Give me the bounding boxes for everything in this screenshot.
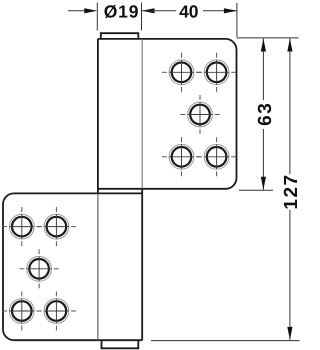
barrel bottom pin cap <box>102 340 139 348</box>
dimension 63: line upper part <box>262 39 264 101</box>
screw hole H9 circles and cross <box>9 299 34 324</box>
screw hole H3 circles and cross <box>188 102 213 127</box>
screw hole H1 centerline dashes <box>162 53 201 92</box>
dimension 63: up arrow <box>261 39 266 52</box>
screw hole H6 circles and cross <box>9 214 34 239</box>
screw hole H10 centerline dashes <box>37 292 76 331</box>
screw hole H2 centerline dashes <box>197 53 236 92</box>
barrel right edge upper (inner, thin) <box>141 39 143 189</box>
dimension 127: line lower part <box>289 210 291 340</box>
screw hole H8 centerline dashes <box>20 249 59 288</box>
dimension 127: line upper part <box>289 39 291 175</box>
barrel left edge upper (outer, thick) <box>97 39 99 194</box>
screw hole H3 centerline dashes <box>181 95 220 134</box>
dimension 127: up arrow <box>287 39 292 52</box>
screw hole H10 circles and cross <box>44 299 69 324</box>
dimension 63: down arrow <box>261 177 266 190</box>
top-right horizontal extension line <box>237 37 299 39</box>
screw hole H8 circles and cross <box>27 256 52 281</box>
screw hole H6 centerline dashes <box>2 207 41 246</box>
top leaf plate outline <box>98 39 237 189</box>
svg-text:40: 40 <box>179 2 199 22</box>
dimension Ø19: left leader line <box>68 10 85 12</box>
dimension 40: line right of text <box>203 10 237 12</box>
screw hole H1 circles and cross <box>169 60 194 85</box>
dimension Ø19: left arrow pointing right <box>84 8 97 13</box>
dimension 63: line lower part <box>262 129 264 190</box>
bottom leaf plate outline <box>3 193 142 340</box>
barrel top pin cap <box>101 33 139 39</box>
dimension Ø19: right extension line <box>141 3 143 31</box>
dimension 127: down arrow <box>287 327 292 340</box>
dimension 40: left arrow pointing left <box>142 8 155 13</box>
barrel left edge lower (inner, thin) <box>97 193 99 340</box>
screw hole H9 centerline dashes <box>2 292 41 331</box>
dimension Ø19: left extension line <box>96 3 98 31</box>
svg-text:Ø19: Ø19 <box>104 2 139 22</box>
screw hole H4 circles and cross <box>169 144 194 169</box>
svg-text:127: 127 <box>281 173 302 209</box>
screw hole H4 centerline dashes <box>162 137 201 176</box>
screw hole H5 circles and cross <box>204 144 229 169</box>
dimension 40: right arrow pointing right <box>224 8 237 13</box>
dimension 40: line left of text <box>142 10 177 12</box>
screw hole H7 centerline dashes <box>37 207 76 246</box>
screw hole H7 circles and cross <box>44 214 69 239</box>
barrel right edge lower (outer, thick) <box>141 189 143 340</box>
bottom horizontal extension line <box>151 340 300 342</box>
screw hole H5 centerline dashes <box>197 137 236 176</box>
svg-text:63: 63 <box>255 102 276 126</box>
extension line at bottom of top plate <box>239 189 273 191</box>
screw hole H2 circles and cross <box>204 60 229 85</box>
dimension 40: right extension line <box>236 3 238 37</box>
